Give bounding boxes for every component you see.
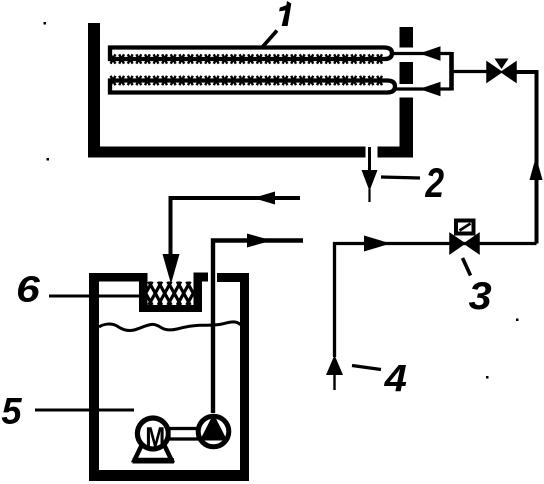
drain arrow 2 <box>362 170 378 191</box>
valve 3 body <box>450 234 479 254</box>
valve top right stem <box>495 59 509 70</box>
scan speck <box>486 376 489 379</box>
bottom tank top edge left segment <box>89 273 148 282</box>
feed header vertical <box>449 52 454 91</box>
scan speck <box>516 319 519 322</box>
return line left arrow <box>253 192 275 205</box>
shaft motor to pump <box>169 429 198 440</box>
top tank bottom left segment <box>88 147 366 158</box>
top tank bottom right segment <box>378 147 413 158</box>
label 2 <box>425 168 444 197</box>
motor M <box>137 418 168 449</box>
leader to label 5 <box>35 409 134 412</box>
drain arrow 2 tail <box>368 189 370 202</box>
motor mount <box>135 446 172 461</box>
sprinkler pipe 1 upper tube nozzle row <box>111 54 386 63</box>
valve 3 actuator diagonal <box>460 224 471 231</box>
inlet arrow 4 tail <box>333 374 335 390</box>
feed line lower <box>395 87 451 90</box>
bottom tank bottom <box>89 470 249 481</box>
pump discharge line <box>213 241 303 414</box>
dash to label 4 <box>352 366 381 370</box>
filter basket right wall <box>194 273 203 313</box>
return line to filter <box>171 198 301 256</box>
label 6 <box>18 276 40 302</box>
pump <box>198 416 229 447</box>
leader to label 1 <box>262 31 278 49</box>
label 3 <box>469 282 491 310</box>
leader to label 6 <box>49 295 145 298</box>
filter basket 6 left wall <box>139 281 148 312</box>
label 5 <box>2 398 22 424</box>
scan speck <box>47 158 50 161</box>
inlet arrow 4 <box>326 355 343 375</box>
filter basket mesh <box>139 282 200 306</box>
top tank right wall upper bar <box>400 27 414 48</box>
water level wavy line <box>99 322 241 331</box>
up arrow on right pipe <box>530 157 543 181</box>
pump discharge right arrow <box>247 234 272 248</box>
bottom tank right wall <box>240 273 249 481</box>
label 1 <box>279 1 291 26</box>
arrow on main pipe <box>364 236 391 252</box>
bottom tank left wall <box>89 273 99 481</box>
pump impeller triangle <box>200 414 227 441</box>
top tank right wall lower bar <box>400 98 414 158</box>
top tank left wall <box>88 23 100 158</box>
top tank right wall middle bar <box>400 62 414 84</box>
sprinkler pipe 1 upper tube outline <box>110 48 392 60</box>
leader to label 3 <box>463 258 471 276</box>
feed arrow upper <box>421 47 440 60</box>
valve 3 actuator box <box>456 221 474 234</box>
dash to label 2 <box>381 177 420 178</box>
drain pipe from top tank <box>368 147 371 172</box>
pipe valve to right corner <box>516 72 537 244</box>
feed line upper <box>392 52 451 55</box>
sprinkler pipe 1 lower tube nozzle row <box>111 76 389 85</box>
pipe to valve <box>452 70 488 73</box>
valve top right body <box>487 62 516 82</box>
sprinkler pipe 1 lower tube outline <box>110 81 395 93</box>
bottom tank top edge right segments <box>194 273 209 282</box>
down arrow into filter <box>163 254 180 284</box>
label 4 <box>384 365 406 391</box>
scan speck <box>44 22 47 25</box>
filter basket bottom <box>139 305 202 313</box>
feed arrow lower <box>421 83 440 96</box>
main horizontal pipe <box>335 244 537 358</box>
